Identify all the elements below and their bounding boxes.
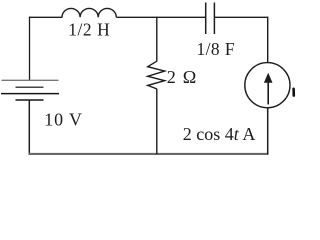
svg-text:2 cos 4t A: 2 cos 4t A (183, 124, 256, 144)
wire middle upper (to resistor) (156, 17, 158, 62)
current source arrow head (264, 73, 273, 83)
capacitor C plate left (205, 3, 207, 35)
edge artifact mark (292, 89, 295, 96)
wire top-right segment (214, 16, 268, 18)
current source circle (245, 63, 290, 108)
battery plate long lower (1, 93, 59, 95)
battery plate short lower (16, 99, 44, 101)
svg-text:1/2 H: 1/2 H (68, 20, 110, 40)
inductor 1/2 H (62, 8, 116, 17)
battery plate short upper (16, 86, 44, 88)
svg-text:10 V: 10 V (44, 109, 83, 129)
wire left upper (to battery) (29, 17, 31, 81)
wire middle lower (resistor to bottom) (156, 89, 158, 155)
resistor 2 ohm zigzag (148, 61, 165, 89)
svg-text:1/8 F: 1/8 F (197, 39, 236, 59)
wire top-middle segment (116, 16, 205, 18)
wire left lower (battery to bottom) (28, 100, 30, 155)
wire right upper (267, 17, 269, 63)
svg-text:2 Ω: 2 Ω (167, 67, 198, 87)
current source arrow shaft (267, 82, 269, 105)
wire top-left segment (29, 16, 62, 18)
capacitor C plate right (213, 3, 215, 35)
wire bottom rail (29, 153, 269, 155)
wire right lower (267, 108, 269, 155)
battery 10 V plate long top (2, 79, 59, 81)
